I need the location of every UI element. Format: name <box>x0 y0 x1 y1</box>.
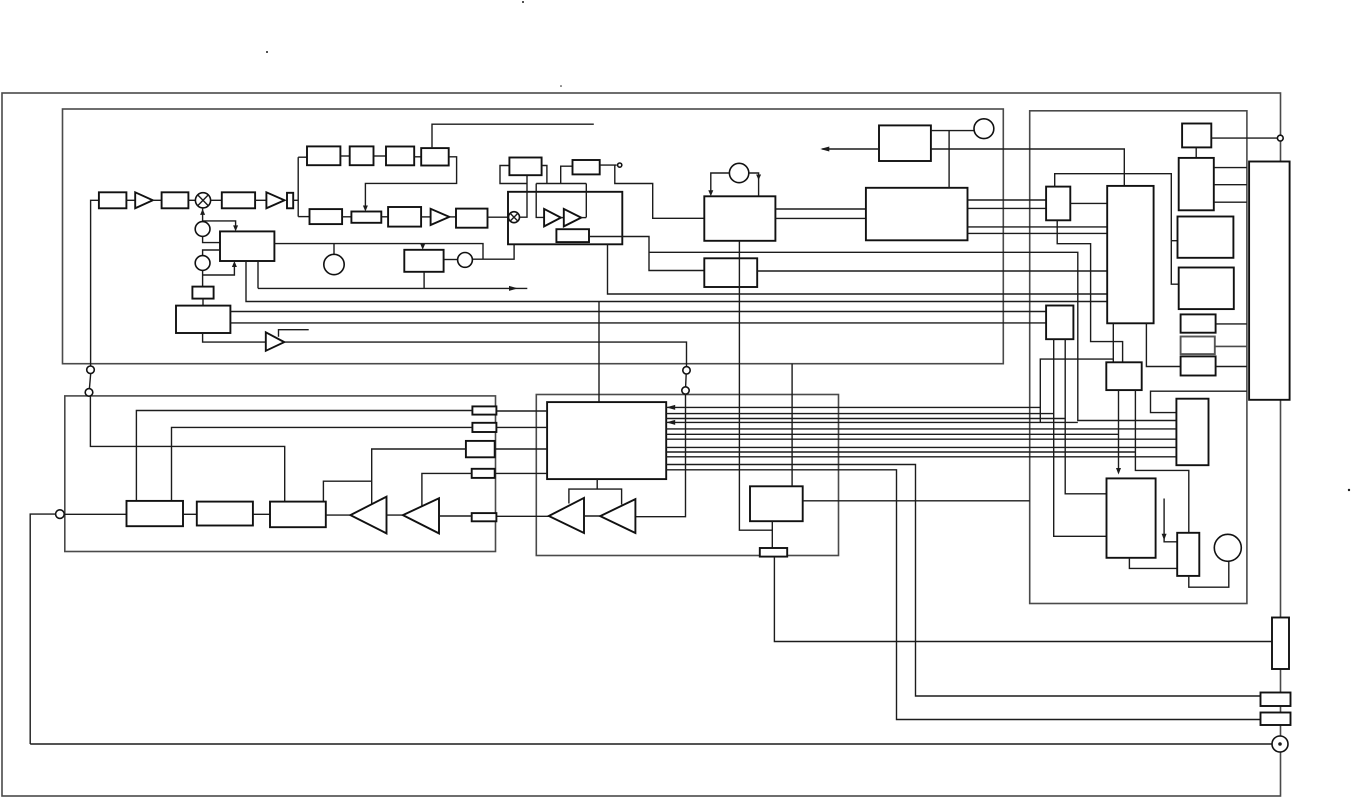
wire PA to meter <box>931 130 974 132</box>
wire det out pair to transceiver <box>775 208 866 210</box>
wire antenna line y744 <box>30 743 1272 745</box>
wire DSP bus line 10 <box>666 456 1176 458</box>
wire audio out to right container edge <box>803 500 1030 502</box>
wire interface out <box>1070 202 1107 204</box>
wire O2 down + branch up-arrow into mod box bottom <box>202 270 204 286</box>
jack J2 lower circle <box>682 387 689 394</box>
speck 3 <box>560 85 562 87</box>
wire DSP bus line 1 with arrow <box>666 406 1040 408</box>
oscillator O4 <box>1214 534 1241 561</box>
box TX-1 (modulator input filter) <box>99 192 127 208</box>
filter rect 1 <box>1261 693 1291 707</box>
wire DSP bus line 3 <box>666 418 1065 420</box>
wire <box>421 216 431 218</box>
wire RX line pin5 to amps <box>496 515 548 517</box>
wire <box>387 514 403 516</box>
wire <box>449 216 456 218</box>
wire J1 into RX box3 top <box>90 396 284 502</box>
wire DSP bus line 8 <box>666 446 1176 448</box>
amplifier RX-C1 (left pointing) <box>549 498 584 533</box>
wire ROM to border terminal <box>1211 137 1277 139</box>
box port B <box>1181 337 1215 355</box>
wire controller outputs to right container <box>968 199 1047 201</box>
wire audio bottom to crystal <box>771 521 773 548</box>
wire long line y311 control box out <box>230 311 1046 313</box>
wire J3 down to antenna line <box>30 514 55 744</box>
wire P3 to DSP <box>495 448 547 450</box>
wire CPU outs <box>1214 167 1247 169</box>
wire mod box bottom-left vertical <box>257 261 259 288</box>
wire branch into divider box <box>1171 240 1177 242</box>
wire J3 to RX box1 <box>64 513 126 515</box>
box duplexer tall right (covers border) <box>1249 162 1290 400</box>
box crystal filter F1 <box>509 158 541 176</box>
wire mod box output to mixer M2 LO <box>274 244 483 260</box>
box CPU <box>1179 158 1214 210</box>
wire PA right long into tall synth box <box>931 149 1124 186</box>
wire interface top loop to PLL boxes <box>1055 174 1179 285</box>
box UR-3 <box>386 147 414 166</box>
box IF small (AGC) <box>556 229 589 242</box>
wire upper row feed <box>298 156 307 158</box>
wire P4 left into RX amp2 top <box>422 473 472 506</box>
wire long line y301 to right container <box>246 261 1107 302</box>
container: right (synthesizer/control section) <box>1030 111 1247 604</box>
container: mid-left (receiver front section) <box>65 396 496 552</box>
wire tap to oscillator O5 <box>333 244 335 255</box>
box LR-2 <box>351 212 381 223</box>
wire interface bottom path <box>1057 220 1122 362</box>
wire amp feedback stub <box>279 330 309 337</box>
speck 4 <box>1348 489 1350 491</box>
pin box P4 <box>472 469 495 478</box>
filter rect 2 <box>1261 713 1291 726</box>
box RX-3 <box>270 502 326 528</box>
resistor tall narrow (covers border) <box>1272 618 1289 670</box>
meter circle <box>974 119 994 139</box>
box UR-1 <box>307 146 340 165</box>
wire port C out <box>1216 366 1247 368</box>
container: center (DSP section) <box>536 395 838 556</box>
wire DSP bus line 2 <box>666 413 1053 415</box>
box serial vert <box>1177 533 1199 576</box>
wire P3 left into RX amp1 top with branch to box3 <box>372 449 466 504</box>
pin box P3 <box>466 441 495 457</box>
speck 2 <box>522 1 524 3</box>
box audio amp <box>750 486 803 521</box>
wire PLL to VCO <box>444 259 458 261</box>
box port A <box>1181 314 1216 332</box>
wire TX input feedback down to jack <box>91 200 99 366</box>
mixer M2 <box>509 212 520 223</box>
amplifier TX-A3 <box>266 332 285 351</box>
wire DSP line to lower rect 1 <box>666 465 1260 697</box>
wire long line y323 control box out <box>230 322 1046 324</box>
wire branch into mod box top <box>203 221 236 229</box>
amplifier LR-A <box>431 209 450 225</box>
wire PLL bottom tap <box>423 272 425 289</box>
wire branch down into DSP top <box>598 302 600 403</box>
wire serial bottom to osc O4 <box>1189 561 1229 587</box>
wire amp out long to jack J2 <box>284 342 686 367</box>
wire <box>340 155 349 157</box>
wire M2 out up to crystal filter F1 <box>520 175 527 217</box>
wire P4 to DSP <box>495 472 547 474</box>
box LR-3 <box>388 207 421 227</box>
wire det bottom long down into audio box <box>739 241 772 530</box>
amplifier IF-A2 <box>564 209 581 227</box>
oscillator O1 <box>195 222 210 237</box>
box mux <box>1106 362 1141 390</box>
jack J1 switch blade <box>89 374 90 389</box>
wire line y288 with right arrow <box>258 287 527 289</box>
wire <box>183 513 197 515</box>
jack J3 antenna circle <box>56 510 65 519</box>
terminal circle T1 <box>618 163 622 167</box>
box LR-1 <box>310 209 343 224</box>
amplifier RX-A2 (left pointing) <box>403 498 439 533</box>
box tall synthesizer <box>1107 186 1153 323</box>
wire DSP bus line 6 <box>666 433 1118 435</box>
wire synth bottom right to boxC <box>1146 323 1180 366</box>
amplifier TX-A2 <box>266 192 284 208</box>
wire amp2 to pin5 <box>439 515 472 517</box>
wire <box>342 216 351 218</box>
box port C <box>1181 356 1216 375</box>
box crystal filter F2 <box>573 160 600 174</box>
pin box P1 <box>472 406 496 414</box>
container: top-left (transmitter section) <box>63 109 1004 364</box>
wire P2 to DSP <box>496 426 547 428</box>
wire lower row feed <box>298 216 309 218</box>
wire <box>326 514 351 516</box>
oscillator VCO <box>458 253 473 268</box>
wire <box>584 515 600 517</box>
wire DSP bus line 4 with arrow <box>666 421 1078 423</box>
box modulator <box>220 231 274 261</box>
wire <box>126 199 135 201</box>
wire synth bottom to mux box <box>1112 323 1114 362</box>
wire mixer M1 LO input with up arrow <box>202 208 204 222</box>
amplifier RX-C2 (left pointing) <box>600 499 635 533</box>
wire codec bottom to serial box <box>1129 558 1177 569</box>
speck 1 <box>266 51 268 53</box>
box TX-3 <box>222 192 255 208</box>
wire IF enclosure bottom tap long line y294 <box>608 244 1108 294</box>
wire mux out arrow down into codec <box>1118 390 1120 472</box>
wire VCO out joining <box>472 225 514 259</box>
box codec tall lower <box>1107 478 1156 557</box>
box RX-1 <box>127 501 184 526</box>
box DSP <box>547 402 666 479</box>
pin box P2 <box>472 423 496 432</box>
wire DSP bus line 9 <box>666 451 1135 453</box>
wire squelch out long to tall box <box>757 270 1107 272</box>
wire J2 into center container to RX amp <box>635 394 685 517</box>
wire P1 left into RX box1 top <box>136 411 472 501</box>
wire from TL container bottom edge into audio box top <box>791 364 793 487</box>
wire port B out <box>1215 345 1247 347</box>
wire <box>188 199 195 201</box>
wire ROM down <box>1195 147 1197 158</box>
filter slab <box>287 193 293 209</box>
wire into mixer M2 <box>488 216 509 218</box>
wire DSP bus line 7 <box>666 438 1176 440</box>
pin box P5 <box>472 513 497 521</box>
amplifier IF-A1 <box>544 209 561 227</box>
wire P1 to DSP <box>496 410 547 412</box>
wire PA wire tap down into controller <box>948 131 950 188</box>
wire O3 right into det top <box>749 173 759 196</box>
wire control box down to amp <box>203 333 266 342</box>
mixer M1 <box>195 193 210 208</box>
box UR-4 <box>421 148 449 165</box>
box UR-2 <box>350 146 374 165</box>
box D interface <box>1176 399 1208 466</box>
wire DSP line to lower rect 2 <box>666 470 1260 720</box>
oscillator O3 <box>729 163 748 182</box>
wire AGC out right, down, into squelch box <box>589 237 704 271</box>
oscillator O2 <box>195 256 210 271</box>
wire F1 out rail <box>542 166 547 184</box>
wire small mid box down pair into codec <box>1054 339 1107 536</box>
box detector <box>704 196 775 241</box>
wire <box>374 155 387 157</box>
amplifier RX-A1 (left pointing) <box>350 497 386 534</box>
box PLL <box>404 250 443 272</box>
oscillator O5 large <box>324 254 344 274</box>
box reference small <box>192 287 213 299</box>
wire O1 to mod box <box>203 236 220 242</box>
wire Z path from right edge into box D <box>1151 391 1247 412</box>
wire <box>561 217 564 219</box>
wire <box>255 199 266 201</box>
box IF strip enclosure <box>508 192 622 245</box>
wire mux out to serial box <box>1135 390 1188 533</box>
wire <box>253 513 270 515</box>
wire DSP bottom U feed to both amps <box>596 479 598 489</box>
wire floating arrow into serial box <box>1164 499 1177 542</box>
box ROM small top <box>1182 124 1211 148</box>
wire P2 left into RX box1 top <box>172 427 473 501</box>
box memory 1 <box>1178 217 1234 258</box>
wire UR-4 output looping down into LR-2 <box>365 157 456 209</box>
box squelch <box>704 258 757 287</box>
crystal slab <box>760 548 787 557</box>
terminal circle on border <box>1277 135 1283 141</box>
box interface small mid <box>1046 306 1073 340</box>
jack J1 lower circle <box>85 389 93 397</box>
wire amp2 out up to rail <box>581 217 586 219</box>
box RX-2 <box>197 502 253 526</box>
wire <box>153 199 162 201</box>
wire splitter to two rows <box>293 199 298 201</box>
wire long tap from UR-4 top <box>432 124 594 148</box>
wire <box>414 156 421 158</box>
wire tap down and right to det box <box>615 165 705 218</box>
amplifier TX-A1 <box>135 192 153 208</box>
jack J2 upper circle <box>683 367 690 374</box>
wire <box>202 299 204 306</box>
wire long line y252 to right container boxD <box>649 252 1176 420</box>
box memory 2 <box>1179 268 1234 310</box>
box synth interface <box>1046 187 1070 221</box>
box PA with meter <box>879 125 931 161</box>
antenna jack bullseye <box>1272 736 1288 752</box>
wire branch left and down to bus <box>1040 359 1113 422</box>
wire <box>211 199 222 201</box>
box control <box>176 306 230 333</box>
box TX-2 <box>162 192 189 208</box>
wire O2 to mod box <box>203 250 220 256</box>
box LR-4 <box>456 209 488 228</box>
wire port A out <box>1216 323 1247 325</box>
box transceiver controller <box>866 188 968 241</box>
jack J2 switch blade <box>685 374 688 388</box>
jack J1 upper circle <box>87 366 95 374</box>
wire PA output stub with left arrow <box>822 148 879 150</box>
wire O3 left into det top <box>711 173 730 194</box>
wire F2 out to switch terminal <box>600 164 617 166</box>
wire crystal down and long right to PTT resistor <box>774 557 1272 642</box>
wire <box>381 216 388 218</box>
wire DSP bus line 5 <box>666 428 1176 430</box>
